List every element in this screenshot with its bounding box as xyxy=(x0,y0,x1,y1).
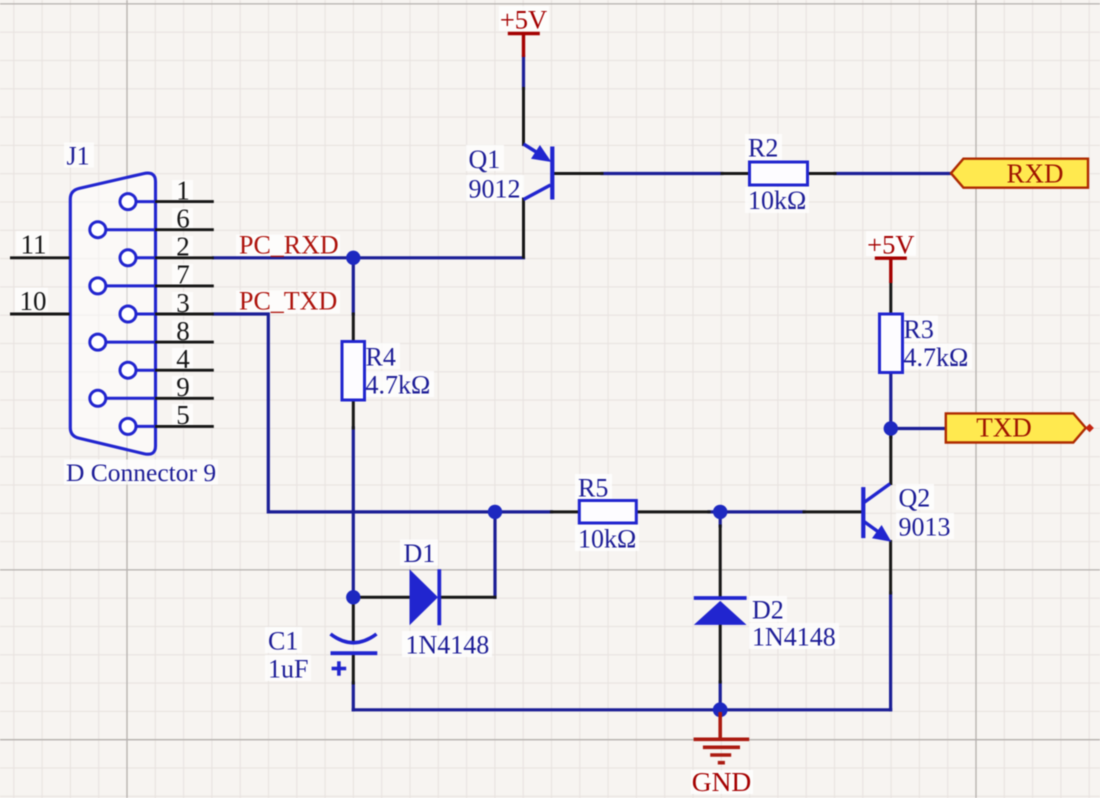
transistor Q1 collector diagonal xyxy=(524,185,551,200)
wire stub pin 10 xyxy=(10,313,70,316)
resistor R4 body xyxy=(342,342,365,401)
diode D2 triangle xyxy=(694,601,747,625)
transistor Q1 base bar xyxy=(550,147,554,200)
svg-text:GND: GND xyxy=(692,766,752,797)
svg-text:R4: R4 xyxy=(366,343,396,372)
svg-text:9012: 9012 xyxy=(469,175,521,204)
pin R2 right xyxy=(808,172,836,175)
svg-text:1: 1 xyxy=(176,175,190,205)
resistor R5 body xyxy=(579,501,636,524)
svg-text:10: 10 xyxy=(20,286,47,316)
port TXD tip marker xyxy=(1085,424,1093,432)
svg-text:4.7kΩ: 4.7kΩ xyxy=(366,371,431,400)
svg-text:8: 8 xyxy=(176,316,190,346)
pin D1 cathode xyxy=(441,596,495,599)
connector J1 body xyxy=(70,173,155,454)
wire R3 bottom to TXD node xyxy=(889,372,892,437)
svg-text:+5V: +5V xyxy=(867,230,914,260)
pin R4 top xyxy=(352,314,355,342)
svg-text:D1: D1 xyxy=(404,539,436,568)
svg-text:11: 11 xyxy=(21,230,47,260)
pin C1 top xyxy=(352,599,355,640)
ground GND symbol xyxy=(694,712,750,763)
svg-text:3: 3 xyxy=(176,288,190,318)
svg-text:RXD: RXD xyxy=(1006,159,1063,189)
junction node PC_RXD/R4 xyxy=(346,251,360,265)
port TXD xyxy=(946,413,1086,442)
power +5V (right) bar xyxy=(875,258,907,283)
transistor Q2 emitter arrow xyxy=(872,525,891,542)
connector J1 pin stubs (inside body) xyxy=(104,202,155,427)
transistor Q2 base bar xyxy=(861,487,865,538)
wire bottom ground rail xyxy=(353,708,890,711)
pin Q1 base xyxy=(554,172,602,175)
svg-text:10kΩ: 10kΩ xyxy=(748,186,806,215)
svg-text:Q2: Q2 xyxy=(899,484,931,513)
pin D1 anode xyxy=(355,596,410,599)
wire stub pin 11 xyxy=(10,256,70,259)
wire TXD node to port xyxy=(891,427,946,430)
wire C1 bottom to rail xyxy=(352,683,355,710)
svg-text:TXD: TXD xyxy=(976,413,1032,443)
pin D2 cathode xyxy=(719,526,722,597)
connector J1 pin circles xyxy=(90,194,136,435)
pin Q2 emitter vertical xyxy=(889,542,892,594)
svg-text:9: 9 xyxy=(176,372,190,402)
svg-text:D Connector 9: D Connector 9 xyxy=(66,458,216,487)
capacitor C1 plus sign xyxy=(332,661,347,675)
svg-text:J1: J1 xyxy=(67,142,90,171)
diode D1 triangle xyxy=(410,569,439,625)
junction node D1 cathode / R5 xyxy=(488,505,502,519)
diode D1 cathode bar xyxy=(437,569,441,625)
svg-text:7: 7 xyxy=(176,260,190,290)
junction node D2 / R5 / Q2 base xyxy=(713,505,727,519)
pin R5 right xyxy=(636,510,709,513)
capacitor C1 curved plate xyxy=(331,634,377,643)
transistor Q1 emitter arrow xyxy=(531,145,551,162)
connector J1 pin leads (black) xyxy=(155,202,214,427)
svg-text:4: 4 xyxy=(176,344,190,374)
pin R5 left xyxy=(552,510,580,513)
svg-text:Q1: Q1 xyxy=(469,145,501,174)
transistor Q2 emitter diagonal xyxy=(864,522,882,535)
wire R4 bottom to node A xyxy=(352,428,355,597)
pin R2 left xyxy=(722,172,750,175)
junction node TXD / R3 / Q2 collector xyxy=(884,421,898,435)
wire R5 to Q2 base xyxy=(709,510,804,513)
svg-text:5: 5 xyxy=(176,400,190,430)
capacitor C1 straight plate xyxy=(331,651,378,655)
pin R4 bottom xyxy=(352,400,355,428)
pin R3 top xyxy=(889,283,892,314)
junction node R4 / D1 / C1 xyxy=(346,590,360,604)
pin Q1 collector xyxy=(522,199,525,257)
wire +5V to Q1 emitter xyxy=(522,57,525,89)
svg-text:9013: 9013 xyxy=(899,513,951,542)
junction node GND rail xyxy=(713,702,728,717)
pin numbers of J1 xyxy=(176,175,190,430)
wire R4 top segment xyxy=(352,258,355,314)
transistor Q2 collector diagonal xyxy=(864,484,890,503)
wire D2 top stub xyxy=(719,512,722,526)
pin Q2 base xyxy=(804,510,861,513)
wire Q2 emitter to bottom rail xyxy=(889,593,892,710)
svg-text:10kΩ: 10kΩ xyxy=(578,525,636,554)
wire R2 to RXD port xyxy=(835,172,951,175)
svg-text:1N4148: 1N4148 xyxy=(406,631,490,660)
wire D2 bottom stub xyxy=(719,682,722,710)
svg-text:PC_RXD: PC_RXD xyxy=(239,231,339,260)
svg-text:4.7kΩ: 4.7kΩ xyxy=(904,343,969,372)
svg-text:D2: D2 xyxy=(752,596,784,625)
svg-text:1uF: 1uF xyxy=(268,655,308,684)
wire Q1 base to R2 xyxy=(602,172,722,175)
transistor Q1 emitter diagonal xyxy=(524,144,546,158)
wire PC_RXD net: pin2 to R4-top / Q1 collector xyxy=(214,256,524,259)
resistor R3 body xyxy=(880,314,903,373)
wire D1 cathode up to node B xyxy=(493,512,496,597)
resistor R2 body xyxy=(750,162,808,185)
power +5V (top) bar xyxy=(508,34,540,58)
svg-text:+5V: +5V xyxy=(500,5,547,35)
svg-text:PC_TXD: PC_TXD xyxy=(239,287,337,316)
pin D2 anode xyxy=(719,625,722,682)
svg-text:1N4148: 1N4148 xyxy=(752,623,836,652)
svg-text:R3: R3 xyxy=(904,315,934,344)
svg-text:2: 2 xyxy=(176,232,190,262)
svg-text:R2: R2 xyxy=(748,134,778,163)
pin Q2 collector vertical xyxy=(889,435,892,484)
pin Q1 emitter xyxy=(522,89,525,145)
svg-text:C1: C1 xyxy=(268,627,298,656)
svg-text:R5: R5 xyxy=(578,474,608,503)
svg-text:6: 6 xyxy=(176,204,190,234)
pin C1 bottom xyxy=(352,655,355,683)
port RXD xyxy=(951,159,1088,188)
diode D2 cathode bar xyxy=(694,596,747,600)
wire PC_TXD net: pin3 down and right to R5 xyxy=(214,314,552,512)
